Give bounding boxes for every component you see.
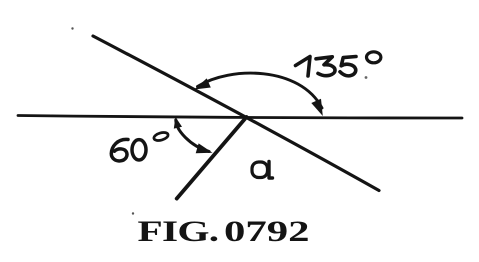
svg-text:0792: 0792: [224, 215, 310, 248]
svg-text:FIG.: FIG.: [138, 215, 219, 248]
